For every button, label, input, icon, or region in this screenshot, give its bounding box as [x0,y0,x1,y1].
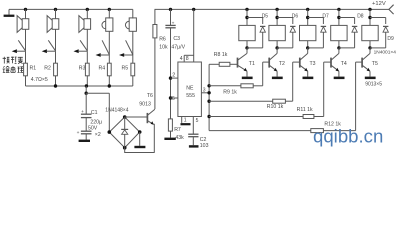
wire T5 emitter [369,71,371,76]
svg-text:D5: D5 [262,13,269,19]
node relay 2 bottom junction [275,46,278,49]
wire relay J4 bottom [338,41,340,48]
wire bridge feed drop [108,93,110,132]
wire R2 to bottom bus [55,76,57,86]
wire pin3 tick [201,92,209,94]
op-amp U1 NE555 box [178,62,202,117]
svg-text:1: 1 [184,118,187,124]
relay contact blade S5 [126,40,133,54]
transistor T5 [361,58,363,68]
wire R11 feed [209,116,303,118]
wire T1 collector [246,48,248,54]
wire R9 feed [209,85,241,87]
relay contact blade S2 [48,40,55,51]
svg-text:+: + [77,131,80,136]
node relay 3 bottom junction [306,46,309,49]
wire rail to speaker B2 [55,9,57,18]
node speaker 2 rail junction [54,8,57,11]
relay contact blade S1 [18,40,25,51]
svg-text:220µ: 220µ [90,119,102,125]
diode D6 [290,25,295,27]
node bridge top [123,115,127,119]
wire rail to pin8 [193,9,195,62]
node bridge right [138,130,142,134]
wire relay J2 bottom [276,41,278,48]
wire diode D5 top branch [247,17,263,19]
svg-text:R10 1k: R10 1k [267,104,284,110]
wire diode D6 bottom branch [277,47,293,49]
svg-text:50V: 50V [88,126,98,132]
svg-text:R3: R3 [79,65,86,71]
wire T4 base feed riser [323,62,325,116]
node relay J1 rail junction [245,8,248,11]
svg-text:R2: R2 [44,65,51,71]
wire pin2 tick [171,77,178,79]
wire rail left drop [8,9,10,14]
wire pin1 stub [181,117,183,123]
diode bridge D1-D4 diamond [109,117,124,132]
svg-text:R6: R6 [159,37,166,43]
node relay J5 rail junction [368,8,371,11]
relay contact blade S3 [80,40,87,51]
resistor R11 [303,115,314,119]
svg-text:47µ/V: 47µ/V [171,45,185,51]
relay actuation arrow 5 [119,53,124,57]
wire T3 collector [307,48,309,54]
svg-text:43k: 43k [175,135,184,141]
svg-text:NE: NE [186,85,194,91]
svg-text:1N4001×4: 1N4001×4 [374,49,397,55]
svg-text:R5: R5 [122,65,129,71]
wire pin5 to C2 [192,117,194,135]
wire rail to relay J5 [369,9,371,25]
capacitor C1 lower [85,118,87,131]
wire T1 emitter [246,71,248,76]
wire T2 collector [276,48,278,54]
relay actuation arrow 3 [74,49,79,53]
diode D7 [321,25,326,27]
node bridge bottom [123,146,127,150]
wire T6 base to bridge top [125,116,148,118]
node pin6 junction [169,96,172,99]
diode D9 [383,25,388,27]
resistor R1 [24,63,28,76]
node R11 bus junction [207,115,210,118]
wire R9 to riser [253,85,263,87]
wire T2 base feed riser [262,62,264,86]
resistor R3 [85,63,89,76]
svg-text:3: 3 [203,87,206,93]
capacitor C1 upper [85,93,87,114]
node pin8 rail junction [192,8,195,11]
svg-text:6: 6 [172,96,175,102]
wire R12 to riser [323,130,355,132]
ground bridge [134,146,145,148]
wire diode D5 bottom branch [247,47,263,49]
wire diode D8 top branch [339,17,355,19]
resistor R2 [54,63,58,76]
speaker B3 [84,19,91,30]
ground T2 [272,77,283,80]
node diode branch 1 [245,16,248,19]
wire pin6 tick [171,97,178,99]
svg-text:1N4148×4: 1N4148×4 [105,107,128,113]
svg-text:T2: T2 [279,61,285,67]
wire pin4 stub [183,55,185,62]
resistor R4 [107,63,111,76]
transistor T2 [268,58,270,68]
wire diode D9 top branch [370,17,386,19]
relay coil J1 [239,25,255,40]
diode D8 [352,25,357,27]
wire speaker 5 to contact [132,31,134,55]
svg-text:R1: R1 [30,65,37,71]
transistor T3 [299,58,301,68]
resistor R8 [219,62,230,66]
wire bridge right to ground [139,132,141,146]
wire T4 emitter [338,71,340,76]
wire rail to relay J1 [246,9,248,25]
node speaker 3 rail junction [86,8,89,11]
wire rail to relay J3 [307,9,309,25]
svg-text:×2: ×2 [95,132,101,138]
speaker B2 [52,19,59,30]
ground T4 [334,77,345,80]
capacitor C3 [165,24,175,26]
svg-text:10k: 10k [159,44,168,50]
svg-text:T4: T4 [341,61,347,67]
svg-text:C3: C3 [173,36,180,42]
svg-text:2: 2 [172,73,175,79]
svg-text:555: 555 [186,93,195,99]
relay coil J2 [269,25,285,40]
ground T3 [303,77,314,80]
relay coil J3 [300,25,316,40]
wire R7 to ground [170,131,172,138]
node C1 lower junction [85,92,88,95]
node C1 bus junction [85,84,88,87]
wire contact to R3 [86,51,88,63]
node speaker 1 rail junction [24,8,27,11]
svg-text:4.7Ω×5: 4.7Ω×5 [31,77,48,83]
node relay 1 bottom junction [245,46,248,49]
node R9 bus junction [207,84,210,87]
svg-text:+12V: +12V [372,1,386,7]
wire T3 base feed riser [292,62,294,101]
wire diode D9 bottom branch [370,47,386,49]
wire rail to C3 [170,9,172,25]
resistor R9 [241,84,253,88]
wire sense bus to bridge [86,92,109,94]
ground pin1 [181,123,191,125]
ground C2 [189,145,199,147]
wire speaker 4 to contact [108,31,110,55]
wire contact to R2 [55,51,57,63]
wire R10 to riser [285,100,292,102]
node speaker 4 rail junction [108,8,111,11]
svg-text:D8: D8 [357,13,364,19]
resistor R12 [311,129,324,133]
resistor R10 [273,99,286,103]
svg-text:R9 1k: R9 1k [223,90,237,96]
relay actuation arrow 2 [42,49,47,53]
wire C1 branch [85,86,87,93]
wire speaker 2 to contact [55,29,57,51]
wire R12 feed [209,130,311,132]
ground C1 [79,140,90,142]
wire rail to speaker B5 [132,9,134,18]
node relay J2 rail junction [275,8,278,11]
node R2 bus junction [54,84,57,87]
node relay J4 rail junction [337,8,340,11]
svg-text:C1: C1 [91,110,98,116]
wire T3 emitter [307,71,309,76]
svg-text:9013: 9013 [139,102,151,108]
svg-text:R8 1k: R8 1k [214,52,228,58]
wire R5 to bottom bus [132,76,134,86]
wire R8 to T1 base [230,63,238,65]
wire diode D6 top branch [277,17,293,19]
capacitor C2 [188,133,198,135]
+12V connector chevron [389,5,394,14]
ground R7 [164,138,175,140]
relay coil J4 [331,25,347,40]
svg-text:T1: T1 [249,61,255,67]
resistor R7 [168,119,172,131]
node diode branch 5 [368,16,371,19]
wire T5 collector [369,48,371,54]
svg-text:103: 103 [200,143,209,149]
node bridge left [108,130,112,134]
wire R8 feed [209,63,219,65]
relay actuation arrow 4 [96,53,101,57]
svg-text:4: 4 [180,56,183,62]
wire bridge bottom return [125,148,155,153]
resistor R5 [131,63,135,76]
node R4 bus junction [108,84,111,87]
wire rail to relay J4 [338,9,340,25]
svg-text:9013×5: 9013×5 [365,81,382,87]
svg-text:R11 1k: R11 1k [297,107,313,113]
relay contact blade S4 [102,40,109,54]
bridge inner diode [124,117,126,129]
wire output bus [208,64,210,130]
node C3 rail junction [169,8,172,11]
transistor T6 [146,113,148,123]
wire relay J3 bottom [307,41,309,48]
wire relay J5 bottom [369,41,371,48]
wire T2 emitter [276,71,278,76]
wire +12V rail right segment [155,8,389,10]
node diode branch 3 [306,16,309,19]
label 输出端 (output) [3,66,23,72]
wire rail to relay J2 [276,9,278,25]
label 接功放 (to power amp) [3,57,23,64]
wire R10 feed [209,100,273,102]
wire speaker 3 to contact [86,29,88,51]
speaker B4 [106,18,113,31]
node pin3 bus junction [207,91,210,94]
wire contact to R5 [132,55,134,63]
wire C1 to ground [85,134,87,140]
wire diode D8 bottom branch [339,47,355,49]
transistor T1 [237,58,239,68]
relay coil J5 [362,25,378,40]
node R10 bus junction [207,100,210,103]
node diode branch 4 [337,16,340,19]
wire rail corner to R6 [154,9,156,24]
svg-text:D6: D6 [292,13,299,19]
relay actuation arrow 1 [12,49,17,53]
wire diode D7 bottom branch [308,47,324,49]
terminal bar (amplifier common) [4,15,15,17]
wire contact to R4 [108,55,110,63]
wire T6 emitter down [153,124,155,153]
svg-text:D7: D7 [322,13,329,19]
speaker B5 [129,18,136,31]
node pin2 junction [169,76,172,79]
svg-text:D9: D9 [387,36,394,42]
wire relay J1 bottom [246,41,248,48]
svg-text:T6: T6 [147,93,153,99]
svg-text:T3: T3 [310,61,316,67]
wire T5 base feed riser [355,62,357,131]
wire rail to speaker B1 [25,9,27,18]
node relay 4 bottom junction [337,46,340,49]
transistor T4 [330,58,332,68]
node relay 5 bottom junction [368,46,371,49]
wire left speaker common rail [9,8,133,10]
wire contact to R1 [25,51,27,63]
wire R4 to bottom bus [108,76,110,86]
svg-text:qqibb.cn: qqibb.cn [313,126,383,147]
svg-text:8: 8 [186,56,189,62]
svg-text:5: 5 [196,118,199,124]
wire C2 to ground [192,137,194,146]
svg-text:R4: R4 [99,65,106,71]
wire rail to speaker B4 [108,9,110,18]
ground T5 [365,77,376,80]
ground T1 [242,77,253,80]
wire R6 to T6 collector [154,38,156,109]
wire R11 to riser [314,116,324,118]
node relay J3 rail junction [306,8,309,11]
wire R3 to bottom bus [86,76,88,86]
wire diode D7 top branch [308,17,324,19]
wire T4 collector [338,48,340,54]
resistor R6 [153,25,157,38]
wire resistor bottom bus [26,85,133,87]
wire rail to speaker B3 [86,9,88,18]
svg-text:R7: R7 [174,127,181,133]
speaker B1 [22,19,29,30]
wire R1 to bottom bus [25,76,27,86]
diode D5 [260,25,265,27]
wire speaker 1 to contact [25,29,27,51]
wire C3 to pin2/6 bus [170,28,172,119]
node diode branch 2 [275,16,278,19]
svg-text:T5: T5 [372,61,378,67]
